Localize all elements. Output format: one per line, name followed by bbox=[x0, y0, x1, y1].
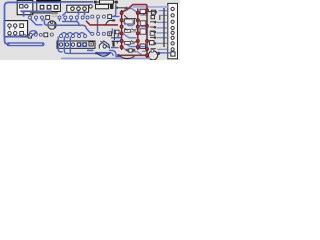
wire: bottom bar hollow core bbox=[10, 43, 42, 45]
dark T mark right of Q1 bbox=[116, 41, 120, 43]
wire: blue from K1 pad to E1 bbox=[23, 32, 37, 37]
wire: blue diag bar1 y33 bbox=[123, 33, 137, 38]
wire: blue diag bottom right bbox=[137, 51, 147, 55]
wire: blue vertical mid x97.5 bbox=[97, 19, 99, 33]
pads X1 three square bbox=[40, 5, 44, 9]
dark diag marks between bars bbox=[124, 15, 137, 42]
wire: blue arc left of row2 bbox=[29, 31, 37, 36]
pad white square bottom right bbox=[129, 49, 132, 52]
small box E5 bbox=[140, 44, 146, 48]
pads U3 row1 bbox=[29, 16, 32, 19]
wire: blue verticals through J2 bbox=[58, 37, 62, 52]
wire: red bottom trace bbox=[119, 54, 146, 56]
wire: red long trace mid bbox=[86, 21, 118, 25]
resistor R1 body top bbox=[100, 0, 114, 4]
pad Q1 bbox=[103, 45, 106, 48]
jumper wire arc bottom mid bbox=[96, 52, 111, 56]
header J2 bottom body bbox=[57, 41, 95, 48]
bus bar B2 vertical dark red bbox=[137, 9, 139, 51]
terminal block X1 body bbox=[37, 0, 61, 11]
pushbutton S1 body bbox=[17, 0, 33, 14]
wire: blue inside S1 bbox=[21, 11, 32, 16]
pad U3 pin1 square bbox=[46, 16, 50, 20]
wire: blue mid trace B bbox=[44, 20, 91, 34]
silkscreen line above W1 bbox=[125, 18, 137, 20]
pad dark right of circle Q2 bbox=[157, 52, 160, 55]
jumper wire arc bottom right bbox=[121, 56, 135, 58]
dark nub right of arc bbox=[112, 19, 115, 21]
pads R1 bbox=[94, 1, 97, 4]
pads U3 row2 bbox=[29, 33, 32, 36]
resistor R1 lead wires bbox=[97, 1, 100, 3]
connector J5 white strip right edge bbox=[168, 3, 180, 58]
wire: blue top right horiz bbox=[124, 9, 137, 13]
capacitor C1 circle outline bbox=[48, 21, 56, 29]
wire: blue horiz below Q1 right bbox=[111, 47, 119, 49]
pads bar B1 red bbox=[120, 11, 123, 48]
pad Q2 top bbox=[151, 49, 154, 52]
pads connector J5 bbox=[171, 7, 174, 10]
board background bbox=[0, 0, 180, 60]
wire: blue stubs bar2 to bar3 bbox=[140, 15, 147, 33]
R3 end pads bbox=[116, 7, 118, 9]
pad row2 square bbox=[44, 33, 48, 37]
wire: blue right row y8 bbox=[133, 6, 168, 8]
wire: blue right rows to connector bbox=[157, 11, 168, 50]
wire: blue stubs X2 to row1 bbox=[79, 10, 85, 16]
wire: blue stubs below row1 bbox=[36, 19, 77, 21]
relay K1 body (left 2x3 pads) bbox=[4, 21, 27, 37]
bus bar B4 vertical dark bbox=[163, 8, 165, 47]
wire: blue diag bar1 y41 bbox=[123, 41, 145, 46]
bus bar B3 vertical dark bbox=[146, 8, 148, 58]
wire: blue vertical 2 through J2 bbox=[64, 37, 95, 54]
wire: blue over U3 top bbox=[31, 10, 52, 12]
component box W1 between bars bbox=[125, 19, 135, 24]
component box W2 between bars bbox=[140, 21, 146, 26]
jumper wire arc over red mid bbox=[106, 20, 114, 25]
wire: blue stub y50.4 bbox=[87, 49, 94, 51]
wire: pale blue bottom long trace bbox=[61, 57, 150, 59]
dark bar right of Q1 bbox=[112, 41, 114, 47]
wire: blue bottom right to connector bbox=[160, 52, 170, 54]
pads K1 row B bbox=[8, 32, 11, 35]
small box E2 right mid bbox=[140, 9, 146, 13]
wire: blue diag bar1 y21 bbox=[123, 20, 134, 25]
wire: blue ring left corner+vertical bbox=[5, 2, 9, 44]
dark short vertical x160 bbox=[159, 16, 161, 20]
pads small bottom right bbox=[126, 49, 129, 52]
small box E4 bbox=[151, 15, 155, 18]
wire: blue vertical 3 through J2 bbox=[69, 37, 71, 54]
small dark box mid right bbox=[115, 30, 119, 34]
wire: blue mid trace A bbox=[62, 22, 79, 26]
pads bar B3 red bbox=[145, 9, 148, 57]
wire: blue curl mid right bbox=[111, 30, 122, 38]
wire: blue ring top trace bbox=[9, 1, 94, 4]
wire: blue diag to row1 bbox=[62, 11, 67, 16]
pads K1 row A bbox=[8, 24, 11, 27]
pad C1 top bbox=[50, 21, 52, 23]
wire: blue short y43.6 bbox=[124, 43, 135, 45]
wire: pale blue y31.8 bbox=[124, 31, 136, 33]
pad connector J5 square bottom bbox=[171, 52, 175, 56]
pad square row2 right bbox=[108, 32, 112, 36]
small box E3 bbox=[151, 10, 155, 14]
dark vertical mid right bbox=[113, 30, 115, 40]
resistor R2 body bbox=[96, 4, 109, 8]
small box E1 between rows bbox=[28, 35, 31, 38]
dark short rows right section bbox=[148, 12, 156, 49]
wire: blue curl bottom inner bbox=[109, 53, 113, 56]
pad S1 round bbox=[25, 5, 28, 8]
dark square pad bottom red start bbox=[117, 54, 119, 56]
pads J2 round bbox=[59, 43, 62, 46]
pads right small mid bbox=[155, 11, 158, 14]
wire: red top right trace bbox=[122, 5, 147, 12]
pads bar B2 red bbox=[136, 11, 139, 48]
wire: blue diag bar1 y47.6 bbox=[123, 48, 137, 52]
small box E7 bbox=[150, 31, 155, 35]
wire: blue curl bottom outer bbox=[109, 50, 121, 56]
pad square row1 right bbox=[108, 15, 112, 19]
transistor Q1 outline bbox=[99, 41, 109, 49]
wire: blue bar under K1 row B bbox=[8, 35, 22, 37]
IC U3 top silkscreen line bbox=[30, 12, 58, 14]
pads X2 three round bbox=[71, 7, 75, 11]
terminal block X2 body bbox=[67, 5, 89, 12]
wire: blue diag from row1 pad30 bbox=[30, 19, 43, 25]
pad R2 left bbox=[89, 5, 92, 8]
small box E6 bbox=[150, 41, 154, 45]
wire: blue curls right of R2 bbox=[112, 4, 120, 16]
wire: blue diag hatches over row2 bbox=[61, 33, 85, 35]
wire: blue K1 inner row stubs bbox=[10, 27, 16, 38]
bus bar B1 vertical dark red bbox=[121, 10, 123, 50]
terminal block X1 thick top edge bbox=[36, 0, 61, 2]
pad S1 square bbox=[20, 5, 23, 8]
svg-text:U3: U3 bbox=[52, 13, 58, 18]
wire: blue horiz above Q1 right bbox=[112, 40, 123, 42]
silkscreen rows between bars bbox=[125, 30, 131, 33]
wire: blue bottom thick bar bbox=[9, 42, 43, 46]
wire: blue stub x112.3 bbox=[111, 29, 113, 34]
wire: blue diag Q1 bbox=[101, 41, 109, 48]
wire: red diag bar3 bbox=[143, 12, 147, 15]
bottom-right transistor Q2 circle bbox=[148, 51, 157, 60]
diode D1 dark band bars bbox=[110, 4, 113, 9]
capacitor C1 polarity stripe bbox=[54, 22, 56, 29]
wire: blue thick bottom mid bbox=[95, 52, 109, 55]
pad J2 square right bbox=[89, 42, 93, 46]
component box W3 bbox=[140, 29, 146, 34]
dark thin line top right resistor R3 bbox=[117, 7, 127, 9]
pads J2 blue squares bbox=[77, 42, 82, 47]
